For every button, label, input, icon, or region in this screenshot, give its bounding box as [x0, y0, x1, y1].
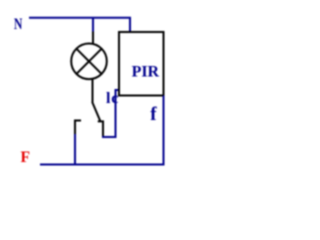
- svg-text:N: N: [14, 16, 23, 33]
- svg-text:f: f: [150, 104, 157, 125]
- svg-text:PIR: PIR: [132, 64, 160, 81]
- wire neutral top horizontal: [29, 17, 131, 19]
- switch blade S1: [92, 102, 100, 121]
- switch contact right (to PIR lc): [98, 121, 103, 137]
- wire lc vertical up: [115, 90, 117, 138]
- wire lamp top lead blue part: [92, 18, 94, 32]
- lamp L1: [71, 44, 107, 80]
- wire top right drop to PIR: [129, 18, 131, 32]
- wire phase bottom horizontal: [40, 164, 165, 166]
- wire bypass contact down blue: [74, 134, 76, 166]
- PIR box U1: [119, 32, 164, 96]
- wire f vertical from PIR bottom right: [163, 96, 165, 166]
- wire lamp bottom lead: [92, 79, 94, 103]
- svg-text:l: l: [106, 90, 111, 107]
- wire contact to lc horizontal: [102, 136, 116, 138]
- wire lc jog into PIR left side: [115, 89, 120, 91]
- svg-text:F: F: [21, 149, 31, 166]
- switch contact left (bypass): [75, 121, 81, 136]
- wire lamp top lead black part: [92, 32, 94, 45]
- svg-text:c: c: [111, 90, 118, 107]
